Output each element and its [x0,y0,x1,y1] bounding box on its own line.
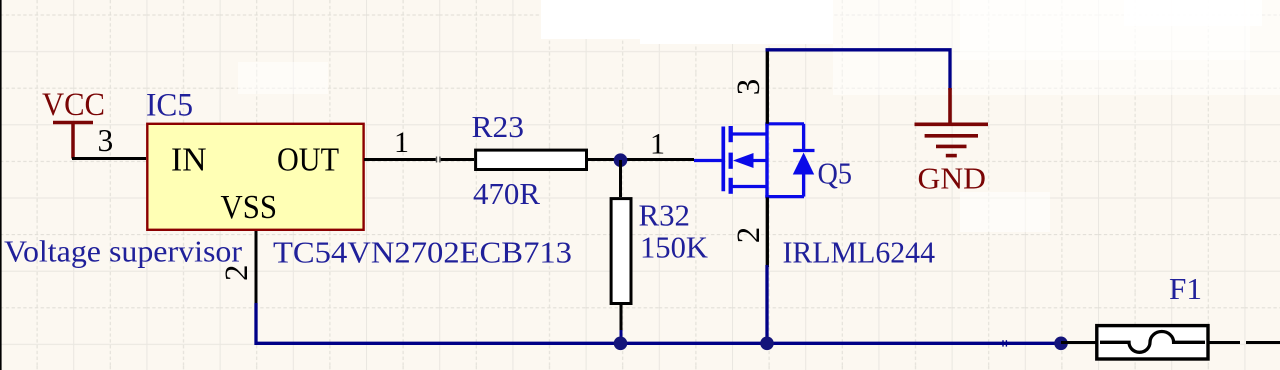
svg-text:OUT: OUT [277,142,339,179]
svg-text:R23: R23 [472,109,525,144]
wire junction to fuse F1 [1061,341,1097,344]
svg-text:R32: R32 [639,198,691,233]
junction bottom net at R32 [614,337,628,351]
svg-text:1: 1 [394,126,409,159]
svg-text:3: 3 [98,123,114,158]
resistor R32 [611,199,631,304]
wire break tick on bottom net [1003,340,1006,346]
wire Q5 source pin (pin 2) [766,197,769,267]
fuse F1 [1097,326,1208,359]
wire Q5 drain pin (pin 3) [766,50,769,124]
wire IC5 VSS pin (pin 2) [255,231,258,305]
svg-text:VSS: VSS [221,189,278,226]
svg-text:3: 3 [731,79,767,96]
svg-text:VCC: VCC [42,87,105,123]
svg-text:IN: IN [171,142,207,179]
wire R32 to bottom net [620,330,623,343]
svg-text:IRLML6244: IRLML6244 [783,235,936,270]
IC IC5 body (voltage supervisor TC54) [147,124,363,230]
wire to sheet edge [1246,341,1280,344]
power symbol VCC [53,123,93,159]
junction at node R23/R32/gate [614,153,628,167]
junction bottom net at Q5 source [760,337,774,351]
svg-text:F1: F1 [1169,271,1202,306]
transistor Q5 (N-MOSFET with body diode) [694,124,815,198]
svg-text:1: 1 [650,128,665,161]
wire Q5 drain to GND [766,50,951,90]
svg-text:2: 2 [731,227,767,244]
svg-text:GND: GND [918,161,987,196]
wire bottom net from VSS to fuse [256,303,1061,343]
svg-text:TC54VN2702ECB713: TC54VN2702ECB713 [273,235,572,270]
svg-text:470R: 470R [473,176,540,211]
resistor R23 [476,150,587,169]
wire VCC to IC5 IN pin [72,157,146,160]
wire R23 to Q5 gate [588,158,694,161]
svg-text:IC5: IC5 [146,88,193,124]
wire junction down to R32 [619,160,622,197]
wire fuse F1 to right edge [1208,341,1240,344]
wire Q5 source to bottom net [765,265,768,343]
svg-text:Voltage supervisor: Voltage supervisor [4,234,243,269]
wire R32 bottom pin [620,305,623,332]
svg-text:Q5: Q5 [818,156,853,191]
wire IC5 OUT pin to R23 [364,158,436,161]
ground GND symbol [915,88,989,156]
svg-text:150K: 150K [640,230,709,265]
junction bottom net at fuse branch [1054,337,1068,351]
